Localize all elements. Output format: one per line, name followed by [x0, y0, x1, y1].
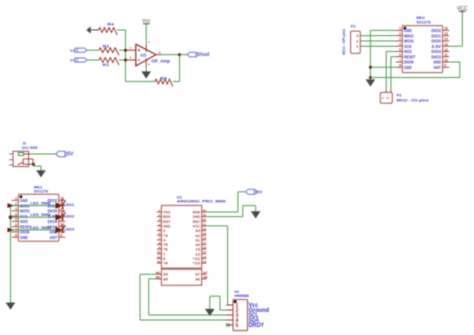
svg-text:5: 5 [399, 48, 401, 52]
svg-text:A6: A6 [203, 276, 207, 280]
svg-text:23: 23 [203, 213, 207, 217]
svg-text:3.3V: 3.3V [431, 44, 441, 49]
svg-text:A5: A5 [163, 277, 168, 281]
svg-text:MCU - I/O pins: MCU - I/O pins [397, 97, 429, 102]
svg-text:GND: GND [20, 235, 28, 240]
svg-text:DIO4: DIO4 [431, 49, 441, 54]
svg-text:DC-005: DC-005 [22, 145, 38, 150]
svg-text:8: 8 [15, 233, 17, 237]
svg-text:OP_Amp: OP_Amp [151, 58, 170, 63]
svg-text:NSS: NSS [20, 219, 28, 224]
svg-text:U1: U1 [141, 52, 147, 57]
svg-text:14: 14 [203, 255, 207, 259]
svg-text:13: 13 [444, 43, 448, 47]
svg-text:DIO2: DIO2 [431, 28, 441, 33]
svg-text:9: 9 [444, 64, 446, 68]
svg-text:GND: GND [404, 65, 412, 70]
svg-text:6: 6 [15, 223, 17, 227]
svg-text:14: 14 [444, 37, 448, 41]
svg-text:NSS: NSS [404, 49, 412, 54]
svg-text:8: 8 [399, 64, 401, 68]
svg-text:10: 10 [444, 58, 448, 62]
svg-text:ARDUINO_PRO_MINI: ARDUINO_PRO_MINI [177, 199, 226, 204]
svg-text:10: 10 [157, 250, 161, 254]
svg-text:SCK: SCK [20, 214, 28, 219]
svg-text:3: 3 [15, 207, 17, 211]
svg-text:1: 1 [399, 27, 401, 31]
svg-text:2: 2 [399, 32, 401, 36]
svg-text:19: 19 [203, 232, 207, 236]
svg-text:16: 16 [203, 246, 207, 250]
svg-text:R3: R3 [160, 76, 168, 81]
svg-text:22: 22 [203, 218, 207, 222]
svg-text:13: 13 [203, 259, 207, 263]
svg-text:2: 2 [386, 97, 390, 99]
svg-text:1: 1 [381, 97, 385, 99]
svg-text:17: 17 [203, 241, 207, 245]
svg-text:RESET: RESET [404, 54, 415, 59]
svg-text:24: 24 [203, 208, 207, 212]
svg-text:R4: R4 [107, 21, 115, 26]
svg-text:1: 1 [356, 45, 358, 49]
svg-text:R2: R2 [103, 43, 111, 48]
svg-text:P1: P1 [351, 24, 357, 29]
svg-text:4: 4 [399, 43, 401, 47]
svg-text:DIO0: DIO0 [431, 39, 441, 44]
svg-text:LED3: LED3 [64, 227, 74, 231]
svg-text:Vout: Vout [198, 52, 210, 58]
svg-text:ANT: ANT [433, 65, 441, 70]
svg-text:SCK: SCK [404, 44, 412, 49]
svg-text:6: 6 [399, 53, 401, 57]
svg-text:11: 11 [157, 255, 160, 259]
svg-text:5V: 5V [67, 152, 74, 158]
svg-text:DIO1: DIO1 [431, 33, 441, 38]
svg-text:5: 5 [235, 323, 238, 329]
svg-text:GND: GND [20, 198, 28, 203]
svg-text:LED_5MM: LED_5MM [30, 213, 50, 217]
svg-text:DRDY: DRDY [249, 322, 265, 329]
svg-text:18: 18 [203, 236, 207, 240]
svg-text:A6: A6 [195, 277, 200, 281]
svg-text:2: 2 [356, 39, 358, 43]
svg-text:MISO: MISO [404, 33, 414, 38]
svg-text:MCU - SPI pins: MCU - SPI pins [341, 29, 346, 55]
svg-text:MOSI: MOSI [404, 39, 414, 44]
svg-text:1: 1 [15, 197, 17, 201]
svg-text:15: 15 [203, 250, 207, 254]
svg-text:GND: GND [404, 28, 412, 33]
svg-text:MOSI: MOSI [20, 209, 30, 214]
svg-text:11: 11 [444, 53, 448, 57]
svg-text:16: 16 [444, 27, 448, 31]
svg-text:R1: R1 [103, 62, 111, 67]
svg-text:DIO5: DIO5 [404, 60, 414, 65]
svg-text:5V: 5V [256, 190, 263, 196]
svg-text:HM588: HM588 [235, 293, 250, 298]
svg-text:12: 12 [444, 48, 448, 52]
svg-text:12: 12 [157, 259, 161, 263]
svg-text:LED_5MM: LED_5MM [30, 226, 50, 230]
svg-text:A7: A7 [195, 273, 200, 277]
svg-text:4: 4 [15, 212, 17, 216]
svg-text:3: 3 [356, 34, 358, 38]
svg-text:*10: *10 [193, 261, 201, 266]
svg-text:9: 9 [60, 233, 62, 237]
svg-text:21: 21 [203, 222, 207, 226]
svg-text:ANT: ANT [49, 235, 57, 240]
svg-text:SX1278: SX1278 [34, 188, 49, 193]
svg-text:20: 20 [203, 227, 207, 231]
svg-text:3: 3 [399, 37, 401, 41]
svg-text:SX1278: SX1278 [416, 19, 431, 24]
svg-text:GND: GND [433, 60, 441, 65]
svg-text:A7: A7 [203, 271, 207, 275]
svg-text:5: 5 [15, 218, 17, 222]
svg-text:LED_5MM: LED_5MM [30, 202, 50, 206]
svg-text:DIO3: DIO3 [431, 54, 441, 59]
svg-text:7: 7 [399, 58, 401, 62]
svg-text:LED1: LED1 [64, 203, 74, 207]
svg-text:15: 15 [444, 32, 448, 36]
svg-text:LED2: LED2 [64, 215, 74, 219]
